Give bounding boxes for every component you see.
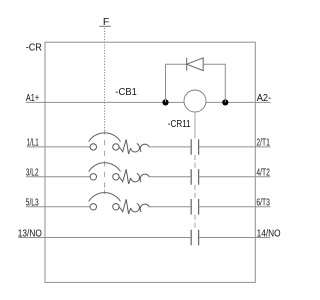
svg-text:-CR11: -CR11 [168, 119, 191, 130]
wire 4/T2 [199, 176, 270, 178]
label 1/L1 [27, 138, 39, 149]
pole 1 left contact circle [90, 144, 96, 150]
svg-text:13/NO: 13/NO [18, 228, 42, 239]
svg-text:A1+: A1+ [26, 93, 39, 104]
contact CR11-4 bars [191, 230, 198, 246]
label 6/T3 [256, 198, 270, 209]
coil -CR11 [184, 90, 206, 112]
pole 3 arc [89, 193, 121, 202]
svg-text:2/T1: 2/T1 [256, 138, 270, 149]
svg-text:1/L1: 1/L1 [27, 138, 39, 149]
contact CR11-2 bars [191, 169, 198, 185]
diode V1 [187, 58, 204, 71]
label -CR [26, 43, 42, 54]
pole 1 thermal overload zigzag [119, 139, 131, 154]
label 3/L2 [26, 168, 39, 179]
pole 3 right contact circle [113, 204, 119, 210]
wire coil bottom stub [194, 112, 196, 138]
label F [103, 16, 109, 28]
pole 3 left contact circle [90, 204, 96, 210]
label 13/NO [18, 228, 42, 239]
F dotted actuation line [104, 28, 106, 129]
svg-text:3/L2: 3/L2 [26, 168, 39, 179]
label -CB1 [115, 87, 137, 98]
svg-text:4/T2: 4/T2 [256, 168, 270, 179]
label 2/T1 [256, 138, 270, 149]
svg-text:14/NO: 14/NO [257, 228, 281, 239]
pole 2 arc [89, 163, 121, 172]
wire pole 1 to contact [149, 146, 190, 148]
wire 2/T1 [199, 146, 270, 148]
label 5/L3 [26, 198, 39, 209]
pole 1 breaker: wire 1/L1 [27, 146, 90, 148]
pole 3 breaker: wire 5/L3 [26, 206, 90, 208]
label 14/NO [257, 228, 281, 239]
pole 2 right contact circle [113, 174, 119, 180]
wire diode loop right riser [203, 64, 225, 102]
label A1+ [26, 93, 39, 104]
svg-text:A2-: A2- [257, 93, 271, 104]
node junction right [222, 99, 228, 105]
wire pole 3 to contact [149, 206, 190, 208]
wire A2- right [206, 101, 271, 103]
label A2- [257, 93, 271, 104]
wire 14/NO [199, 237, 270, 239]
pole 2 breaker: wire 3/L2 [26, 176, 90, 178]
pole 2 thermal overload zigzag [119, 169, 131, 184]
node junction left [162, 99, 168, 105]
F terminal underline [99, 25, 111, 27]
wire A1+ left [26, 101, 184, 103]
wire pole 2 to contact [149, 176, 190, 178]
pole 1 magnetic trip loops [131, 144, 150, 153]
contact CR11-3 bars [191, 199, 198, 215]
pole 2 magnetic trip loops [131, 173, 150, 182]
pole 3 magnetic trip loops [131, 203, 150, 212]
svg-text:-CR: -CR [26, 43, 42, 54]
svg-text:6/T3: 6/T3 [256, 198, 270, 209]
pole 1 right contact circle [113, 144, 119, 150]
pole 1 arc [89, 133, 121, 142]
wire 6/T3 [199, 206, 270, 208]
svg-text:-CB1: -CB1 [115, 87, 137, 98]
label 4/T2 [256, 168, 270, 179]
CR11 contact link dashed line [194, 155, 196, 228]
label -CR11 [168, 119, 191, 130]
enclosure box -CR [45, 42, 255, 282]
pole 3 thermal overload zigzag [119, 199, 131, 214]
wire 13/NO [19, 237, 191, 239]
CB1 mechanical link dashed line [104, 129, 106, 188]
wire diode loop left riser [166, 64, 187, 102]
svg-text:5/L3: 5/L3 [26, 198, 39, 209]
pole 2 left contact circle [90, 174, 96, 180]
contact CR11-1 bars [191, 139, 198, 155]
